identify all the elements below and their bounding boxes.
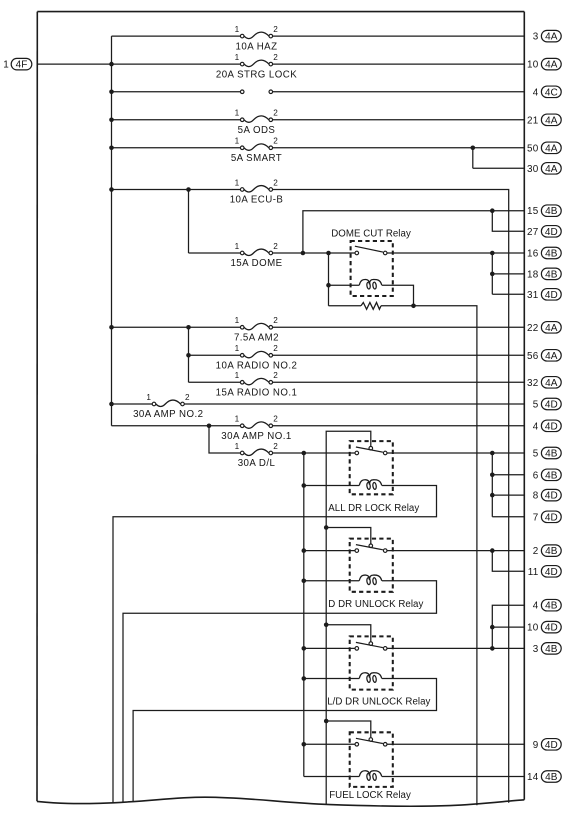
junction common vertical / FUEL LOCK pivot feed: [324, 719, 329, 724]
relay ALL DR LOCK dashed case: [350, 441, 393, 494]
svg-text:1: 1: [235, 25, 240, 34]
fuse 20A STRG LOCK: [240, 60, 272, 66]
wire supply to D DR UNLOCK switch contact: [304, 550, 355, 552]
fuse 5A SMART: [240, 144, 272, 150]
relay FUEL LOCK dashed case: [350, 732, 393, 787]
svg-text:10: 10: [527, 60, 539, 71]
svg-text:4B: 4B: [545, 449, 558, 460]
junction SMART line / branch to pin 30: [471, 146, 476, 151]
svg-text:10: 10: [527, 623, 539, 634]
svg-text:11: 11: [528, 567, 539, 578]
wire radio branch vertical: [188, 327, 190, 382]
wire D DR UNLOCK switch output to pin 2 4B: [387, 550, 524, 552]
svg-text:10A HAZ: 10A HAZ: [236, 41, 278, 52]
wire SMART fuse to pin 50 4A: [273, 147, 525, 149]
svg-text:1: 1: [235, 53, 240, 62]
page border torn bottom edge: [37, 797, 524, 806]
svg-text:4B: 4B: [545, 644, 558, 655]
pin 9 connector 4D: [533, 739, 561, 751]
svg-text:ALL DR LOCK Relay: ALL DR LOCK Relay: [328, 503, 419, 514]
svg-text:D DR UNLOCK Relay: D DR UNLOCK Relay: [328, 599, 423, 610]
fuse 5A ODS: [240, 116, 272, 122]
wire D/L fuse to ALL DR LOCK relay switch contact: [273, 452, 355, 454]
switch of L-D DR UNLOCK relay: [355, 642, 387, 650]
svg-text:4D: 4D: [545, 227, 558, 238]
junction AM2 row / radio branch: [186, 325, 191, 330]
junction pin2 line / branch to pin 11: [490, 548, 495, 553]
svg-text:1: 1: [146, 393, 151, 402]
wire branch from pin3 line up to pin 4 4B row: [492, 605, 524, 648]
svg-text:7.5A AM2: 7.5A AM2: [234, 333, 279, 344]
fuse 30A AMP NO.2: [152, 400, 184, 406]
svg-text:27: 27: [527, 227, 538, 238]
switch of FUEL LOCK relay: [355, 738, 387, 746]
wire L-D DR UNLOCK coil output right, down, left to far-left drop: [133, 679, 436, 802]
svg-text:1: 1: [235, 178, 240, 187]
wire to pin 30 4A: [473, 167, 525, 169]
svg-text:15A RADIO NO.1: 15A RADIO NO.1: [216, 388, 298, 399]
fuse 10A HAZ: [240, 32, 272, 38]
svg-text:4B: 4B: [545, 546, 558, 557]
wire HAZ row from bus to fuse: [112, 35, 241, 37]
svg-text:4: 4: [533, 601, 539, 612]
connector terminal right, open contact: [269, 90, 273, 94]
wire D DR UNLOCK coil output right, down, left to far-left drop: [123, 581, 437, 803]
pin 30 connector 4A: [527, 163, 561, 175]
wire ECU-B row from bus to fuse: [112, 189, 241, 191]
svg-text:2: 2: [185, 393, 190, 402]
wire STRG LOCK fuse to pin 10 4A: [273, 63, 525, 65]
svg-text:22: 22: [527, 323, 538, 334]
pin 15 connector 4B: [527, 205, 561, 217]
svg-text:4B: 4B: [545, 206, 558, 217]
svg-text:4A: 4A: [545, 378, 558, 389]
wire RADIO NO.1 fuse to pin 32 4A: [273, 381, 525, 383]
junction node D/L line / relay supply bus: [302, 451, 307, 456]
svg-text:3: 3: [533, 644, 539, 655]
svg-text:4D: 4D: [545, 491, 558, 502]
wire SMART row from bus to fuse: [112, 147, 241, 149]
junction branch / pin 10 row: [490, 625, 495, 630]
junction branch / pin 6 row: [490, 473, 495, 478]
svg-text:6: 6: [533, 470, 539, 481]
wire to pin 8 4D: [492, 494, 524, 496]
svg-text:2: 2: [273, 344, 278, 353]
svg-text:4C: 4C: [545, 87, 558, 98]
wire supply to L-D DR UNLOCK switch contact: [304, 647, 355, 649]
junction radio branch / RADIO NO.2 row: [186, 353, 191, 358]
wire DOME row to fuse: [189, 252, 241, 254]
wire resistor line left segment: [329, 305, 362, 307]
junction common vertical / L-D DR UNLOCK pivot feed: [324, 623, 329, 628]
svg-text:4A: 4A: [545, 351, 558, 362]
svg-text:20A STRG LOCK: 20A STRG LOCK: [216, 69, 297, 80]
junction supply bus / FUEL LOCK switch line: [302, 742, 307, 747]
svg-text:30A AMP NO.2: 30A AMP NO.2: [133, 409, 203, 420]
wire branch down from SMART line to pin 30 row: [472, 148, 474, 169]
wire branch from pin16 line down to pin 31 row: [491, 253, 493, 294]
pin 27 connector 4D: [527, 226, 561, 238]
svg-text:4B: 4B: [545, 470, 558, 481]
pin 21 connector 4A: [527, 114, 561, 126]
svg-text:4B: 4B: [545, 269, 558, 280]
coil of FUEL LOCK relay: [359, 771, 381, 781]
svg-text:2: 2: [273, 25, 278, 34]
svg-text:5: 5: [533, 400, 539, 411]
wire DOME CUT coil line: [329, 284, 360, 286]
wire FUEL LOCK coil output to pin 14 4B: [382, 776, 524, 778]
svg-text:3: 3: [533, 32, 539, 43]
junction supply bus / D DR UNLOCK switch line: [302, 548, 307, 553]
wire FUEL LOCK coil line from supply bus corner: [304, 776, 359, 778]
coil of DOME CUT relay: [359, 279, 381, 289]
wire ALL DR LOCK coil line: [304, 485, 359, 487]
junction supply bus / L-D DR UNLOCK coil: [302, 676, 307, 681]
pin 10 connector 4D: [527, 621, 561, 633]
pin 56 connector 4A: [527, 350, 561, 362]
switch of ALL DR LOCK relay: [355, 446, 387, 454]
svg-text:4A: 4A: [545, 60, 558, 71]
junction bus / STRG LOCK row: [109, 62, 114, 67]
junction supply bus / L-D DR UNLOCK switch line: [302, 646, 307, 651]
coil of L-D DR UNLOCK relay: [359, 673, 381, 683]
junction bus / AM2 row: [109, 325, 114, 330]
wire AMP NO.2 fuse to pin 5 4D: [184, 403, 524, 405]
coil of D DR UNLOCK relay: [359, 575, 381, 585]
svg-text:16: 16: [527, 249, 539, 260]
pin 7 connector 4D: [533, 511, 561, 523]
svg-text:1: 1: [235, 371, 240, 380]
fuse 7.5A AM2: [240, 323, 272, 329]
svg-text:1: 1: [235, 242, 240, 251]
svg-text:FUEL LOCK Relay: FUEL LOCK Relay: [329, 790, 411, 801]
wire ECU-B fuse output going right then down off page: [273, 190, 509, 803]
junction pin16 line / branch down: [490, 251, 495, 256]
pin 16 connector 4B: [527, 247, 561, 259]
pin 4 connector 4C: [533, 86, 561, 98]
junction supply bus / D DR UNLOCK coil: [302, 579, 307, 584]
wire feed to FUEL LOCK switch pivot: [326, 721, 371, 737]
pin 8 connector 4D: [533, 489, 561, 501]
svg-text:50: 50: [527, 143, 539, 154]
wire RADIO NO.2 fuse to pin 56 4A: [273, 354, 525, 356]
pin 2 connector 4B: [533, 545, 561, 557]
pin 11 connector 4D: [528, 566, 561, 578]
junction resistor line / coil return: [411, 304, 416, 309]
svg-text:8: 8: [533, 491, 539, 502]
junction bus / SMART row: [109, 146, 114, 151]
wire connector row from bus to left terminal: [112, 91, 241, 93]
junction DOME line / relay coil branch: [326, 251, 331, 256]
wire branch from ECU-B row down to DOME fuse row: [188, 190, 190, 254]
wire ALL DR LOCK coil output right, down, left to far-left drop: [113, 486, 437, 804]
svg-text:4A: 4A: [545, 115, 558, 126]
wire feed to L-D DR UNLOCK switch pivot: [326, 625, 371, 642]
svg-text:15A DOME: 15A DOME: [230, 258, 282, 269]
pin 50 connector 4A: [527, 142, 561, 154]
svg-text:1: 1: [3, 60, 9, 71]
svg-text:1: 1: [235, 344, 240, 353]
switch of D DR UNLOCK relay: [355, 544, 387, 552]
svg-text:4A: 4A: [545, 164, 558, 175]
wire branch up from DOME line: [303, 211, 524, 253]
svg-text:30A D/L: 30A D/L: [238, 458, 276, 469]
svg-text:4D: 4D: [545, 421, 558, 432]
junction pin3 line / branch up: [490, 646, 495, 651]
svg-text:2: 2: [273, 109, 278, 118]
svg-text:4A: 4A: [545, 32, 558, 43]
pin 3 connector 4A: [533, 30, 561, 42]
wire AM2 row from bus to fuse: [112, 326, 241, 328]
junction bus / ECU-B row: [109, 187, 114, 192]
svg-text:2: 2: [273, 137, 278, 146]
wire L-D DR UNLOCK coil line: [304, 678, 359, 680]
junction common vertical / D DR UNLOCK pivot feed: [324, 525, 329, 530]
wire supply to FUEL LOCK switch contact: [304, 743, 355, 745]
wire to pin 18 4B: [492, 273, 524, 275]
coil of ALL DR LOCK relay: [359, 480, 381, 490]
wire from connector 4F pin 1 to bus node: [37, 63, 112, 65]
wire to pin 10 4D: [492, 626, 524, 628]
pin 18 connector 4B: [527, 268, 561, 280]
svg-text:4D: 4D: [545, 512, 558, 523]
wire connector row to pin 4 4C: [273, 91, 525, 93]
wire from DOME line down to coil line and resistor line: [328, 253, 330, 306]
svg-text:2: 2: [273, 442, 278, 451]
page border top edge: [37, 11, 524, 13]
wire AMP NO.1 fuse to pin 4 4D: [273, 425, 525, 427]
page border left edge: [36, 12, 38, 802]
switch of DOME CUT relay: [355, 246, 387, 255]
svg-text:10A RADIO NO.2: 10A RADIO NO.2: [216, 361, 298, 372]
svg-text:L/D DR UNLOCK Relay: L/D DR UNLOCK Relay: [327, 697, 430, 708]
fuse 30A AMP NO.1: [240, 422, 272, 428]
wire main vertical bus from 10A HAZ row down to 30A AMP NO.1 row: [111, 36, 113, 426]
wire to pin 6 4B: [492, 474, 524, 476]
svg-text:2: 2: [273, 242, 278, 251]
svg-text:5A SMART: 5A SMART: [231, 153, 282, 164]
wire ODS fuse to pin 21 4A: [273, 119, 525, 121]
svg-text:4D: 4D: [545, 290, 558, 301]
pin 14 connector 4B: [527, 771, 561, 783]
wire resistor line right segment going down off page: [381, 306, 477, 805]
junction branch / pin 18 row: [490, 272, 495, 277]
fuse 15A DOME: [240, 249, 272, 255]
wire common feed: ALL DR LOCK pivot up and left, down the common vertical: [326, 431, 371, 805]
svg-text:4D: 4D: [545, 623, 558, 634]
svg-text:5: 5: [533, 449, 539, 460]
svg-text:30: 30: [527, 164, 539, 175]
pin 6 connector 4B: [533, 469, 561, 481]
fuse 15A RADIO NO.1: [240, 378, 272, 384]
svg-text:2: 2: [273, 415, 278, 424]
svg-text:4D: 4D: [545, 567, 558, 578]
wire RADIO NO.1 row to fuse: [189, 381, 241, 383]
relay DOME CUT dashed case: [351, 241, 393, 296]
svg-text:2: 2: [273, 316, 278, 325]
wire relay supply bus vertical: [303, 453, 305, 777]
wire RADIO NO.2 row to fuse: [189, 354, 241, 356]
wire ODS row from bus to fuse: [112, 119, 241, 121]
wire ALL DR LOCK switch output to pin 5 4B: [387, 452, 524, 454]
junction pin5 line / branch down: [490, 451, 495, 456]
svg-text:10A ECU-B: 10A ECU-B: [230, 195, 284, 206]
page border right edge: [523, 12, 525, 800]
svg-text:1: 1: [235, 442, 240, 451]
wire FUEL LOCK switch output to pin 9 4D: [387, 743, 524, 745]
pin 31 connector 4D: [527, 289, 561, 301]
svg-text:4B: 4B: [545, 249, 558, 260]
wire branch from pin15 line down to pin 27 4D: [492, 211, 524, 232]
pin 4 connector 4B: [533, 599, 561, 611]
wire AMP NO.1 row from bus corner to fuse: [112, 425, 241, 427]
junction coil-line / vertical from DOME line: [326, 283, 331, 288]
svg-text:1: 1: [235, 137, 240, 146]
junction supply bus / ALL DR LOCK coil: [302, 483, 307, 488]
wire to pin 7 4D: [492, 516, 524, 518]
wire HAZ fuse to pin 3 4A: [273, 35, 525, 37]
wire DOME fuse to relay switch contact: [273, 252, 355, 254]
svg-text:4B: 4B: [545, 601, 558, 612]
svg-text:4D: 4D: [545, 400, 558, 411]
svg-text:4: 4: [533, 421, 539, 432]
wire L-D DR UNLOCK switch output to pin 3 4B: [387, 647, 524, 649]
junction ECU-B row / DOME branch: [186, 187, 191, 192]
fuse 10A RADIO NO.2: [240, 351, 272, 357]
junction AMP NO.1 row / D-L branch: [207, 424, 212, 429]
svg-text:2: 2: [273, 53, 278, 62]
wire feed to D DR UNLOCK switch pivot: [326, 528, 371, 544]
pin 5 connector 4D: [533, 398, 561, 410]
connector terminal left, open contact: [240, 90, 244, 94]
svg-text:30A AMP NO.1: 30A AMP NO.1: [221, 431, 291, 442]
svg-text:1: 1: [235, 109, 240, 118]
svg-text:4A: 4A: [545, 143, 558, 154]
svg-text:21: 21: [527, 115, 539, 126]
svg-text:4D: 4D: [545, 740, 558, 751]
svg-text:4F: 4F: [16, 60, 28, 71]
junction bus / ODS row: [109, 118, 114, 123]
pin 32 connector 4A: [527, 377, 561, 389]
svg-text:7: 7: [533, 512, 539, 523]
svg-text:2: 2: [273, 178, 278, 187]
wire AM2 fuse to pin 22 4A: [273, 326, 525, 328]
wire branch from pin5 line down to pin 7 row: [491, 453, 493, 517]
wire AMP NO.2 row from bus to fuse: [112, 403, 153, 405]
relay L-D DR UNLOCK dashed case: [350, 636, 393, 689]
wire STRG LOCK row from bus to fuse: [112, 63, 241, 65]
wire to pin 31 4D: [492, 293, 524, 295]
svg-text:1: 1: [235, 415, 240, 424]
relay D DR UNLOCK dashed case: [350, 539, 393, 592]
junction branch / pin 8 row: [490, 493, 495, 498]
svg-text:4: 4: [533, 87, 539, 98]
wire D DR UNLOCK coil line: [304, 580, 359, 582]
svg-text:15: 15: [527, 206, 539, 217]
svg-text:56: 56: [527, 351, 539, 362]
wire branch from AMP NO.1 row down to D/L row: [209, 426, 240, 453]
connector pin 1 of 4F, left side: [3, 58, 32, 70]
svg-text:32: 32: [527, 378, 538, 389]
pin 4 connector 4D: [533, 420, 561, 432]
svg-text:14: 14: [527, 772, 539, 783]
svg-text:4B: 4B: [545, 772, 558, 783]
junction node DOME line / branch up to pin 15: [301, 251, 306, 256]
junction bus / connector row: [109, 90, 114, 95]
pin 3 connector 4B: [533, 643, 561, 655]
svg-text:31: 31: [527, 290, 539, 301]
pin 5 connector 4B: [533, 447, 561, 459]
svg-text:18: 18: [527, 269, 539, 280]
pin 10 connector 4A: [527, 58, 561, 70]
wire DOME CUT coil output right then down to resistor line: [382, 285, 414, 306]
pin 22 connector 4A: [527, 322, 561, 334]
resistor in parallel with DOME CUT coil: [361, 303, 381, 310]
svg-text:4A: 4A: [545, 323, 558, 334]
svg-text:9: 9: [533, 740, 539, 751]
wire branch from pin2 line to pin 11 4D: [492, 551, 524, 572]
wire DOME CUT switch output to pin 16 4B: [387, 252, 524, 254]
junction bus / AMP NO.2 row: [109, 402, 114, 407]
svg-text:5A ODS: 5A ODS: [238, 125, 276, 136]
svg-text:2: 2: [273, 371, 278, 380]
svg-text:2: 2: [533, 546, 539, 557]
fuse 30A D/L: [240, 449, 272, 455]
junction pin15 line / branch to pin 27: [490, 208, 495, 213]
fuse 10A ECU-B: [240, 186, 272, 192]
svg-text:DOME CUT Relay: DOME CUT Relay: [331, 229, 411, 240]
svg-text:1: 1: [235, 316, 240, 325]
